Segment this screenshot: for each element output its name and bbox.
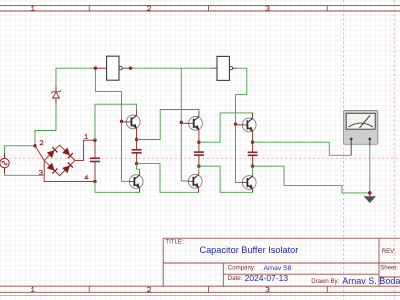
svg-text:REV:: REV: (382, 248, 396, 255)
border zone digits (31, 6, 269, 292)
ground symbol (364, 193, 376, 203)
page crosshair dashed line horizontal (0, 157, 400, 159)
label pin 1 (84, 134, 87, 138)
bridge diode TR (63, 148, 70, 155)
wire B: node1 up to Q1 collector (95, 104, 137, 140)
ground junction dot (368, 191, 372, 195)
Q5 base junction dot (234, 123, 237, 126)
Q3 base junction dot (180, 121, 183, 124)
meter left terminal stub (350, 144, 352, 155)
capacitor C4 spine (248, 142, 258, 166)
wire: meter right terminal down to ground (369, 147, 371, 193)
wire: base column Q5 to Q6 (236, 124, 242, 182)
svg-text:Arnav S. Bodakh: Arnav S. Bodakh (342, 276, 400, 286)
transistor Q2 (129, 171, 143, 192)
page crosshair dashed line vertical 2 (393, 0, 395, 300)
C2 bottom junction dot (135, 162, 138, 165)
label pin 4 (85, 175, 89, 179)
wire W3: C4 bottom dot to ground node (253, 166, 370, 193)
inverter gate U2 (212, 56, 238, 80)
capacitor C3 spine (194, 142, 204, 166)
svg-text:Drawn By:: Drawn By: (311, 278, 339, 285)
transistor Q5 (236, 113, 257, 142)
pin2 diagonal wire (35, 146, 44, 161)
node 1 junction dot (93, 139, 96, 142)
title block values (199, 245, 400, 286)
wire: C3 top dot right and up to Q5 collector (199, 113, 253, 142)
svg-text:Sheet: 1/: Sheet: 1/ (380, 264, 400, 271)
svg-text:Arnav S8: Arnav S8 (264, 265, 292, 272)
wire: gate1 output to gate2 input (131, 67, 212, 69)
AC source V1 (0, 153, 9, 173)
wire: AC top to node2 (5, 146, 36, 153)
C2 top junction dot (135, 138, 138, 141)
bridge diode BL (47, 163, 54, 170)
svg-text:2024-07-13: 2024-07-13 (245, 273, 289, 283)
wire: C3 bottom to Q4 collector (198, 166, 200, 174)
title block labels (165, 239, 400, 285)
wire: zener top to gate1 input (56, 68, 95, 86)
meter right terminal stub (369, 144, 371, 146)
bridge diode TL (47, 150, 54, 157)
page crosshair dashed line vertical 1 (343, 0, 345, 300)
wire: node2 up to zener leg (35, 104, 56, 146)
capacitor C2 spine (132, 140, 142, 164)
label pin 3 (39, 170, 42, 174)
wire: node4 to Q2 emitter bus (95, 181, 140, 192)
Q1 base junction dot (120, 120, 123, 123)
wire W1: C4 top dot to meter plus terminal (253, 142, 352, 155)
svg-text:Company:: Company: (228, 264, 256, 271)
wire: C4 bottom to Q6 collector (252, 166, 254, 175)
C3 top junction dot (197, 141, 200, 144)
wire: C2 top dot right and up to Q3 collector (137, 110, 199, 140)
wire: AC bottom to bridge pin3 (5, 173, 44, 175)
wire: C2 bottom to Q2 collector (137, 164, 140, 172)
meter M1 (343, 111, 378, 145)
wire: gate2 output to Q5 base column (236, 68, 247, 124)
wire: C2 bottom dot right down to Q4 emitter (137, 164, 199, 193)
transistor Q3 (181, 111, 202, 142)
bridge diode BR (63, 166, 70, 173)
C4 top junction dot (251, 141, 254, 144)
transistor Q1 (122, 110, 141, 140)
inverter gate U1 (95, 56, 130, 80)
bridge rectifier B1 (35, 140, 95, 181)
label pin 2 (40, 141, 43, 145)
svg-text:TITLE:: TITLE: (165, 239, 184, 246)
C4 bottom junction dot (251, 165, 254, 168)
gate1 input junction dot (94, 67, 97, 70)
capacitor C1 (90, 140, 100, 181)
node 2 junction dot (33, 144, 36, 147)
wire: tee down to Q3 base column (180, 68, 182, 122)
wire: C3 bottom dot right down to Q6 emitter (199, 166, 253, 192)
wire: base column Q1 to Q2 (122, 121, 129, 181)
svg-text:Date:: Date: (228, 275, 243, 282)
node 4 junction dot (93, 180, 96, 183)
diamond outline (44, 145, 75, 176)
transistor Q4 (188, 172, 202, 193)
zener diode D1 (51, 86, 61, 104)
wire: base column Q3 to Q4 (181, 123, 188, 182)
title block frame (163, 238, 400, 286)
C3 bottom junction dot (197, 165, 200, 168)
wire A: gate1 input down to Q1 base column (95, 68, 121, 121)
pin3/4 left corner drop (44, 160, 95, 181)
svg-text:Capacitor Buffer Isolator: Capacitor Buffer Isolator (199, 245, 298, 255)
transistor Q6 (242, 173, 256, 192)
gate1 output junction dot (129, 67, 132, 70)
pin1 right corner wire (75, 140, 95, 160)
